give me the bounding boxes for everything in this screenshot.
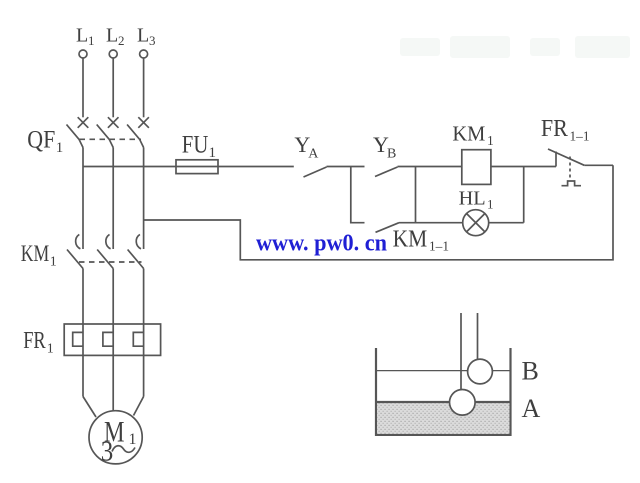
wire L3 to QF1 <box>143 58 145 117</box>
switch YA blade <box>304 167 327 177</box>
faint ghost watermark top right <box>400 36 630 58</box>
wire YB to coil KM1 <box>398 166 462 168</box>
FR1 heater element pole 1 <box>73 332 83 346</box>
breaker QF1 pole 2 contact cross <box>108 117 119 128</box>
contact FR1-1 thermal symbol <box>562 181 582 186</box>
terminal L3 <box>140 50 148 58</box>
svg-text:1: 1 <box>209 145 217 161</box>
wire L1 to QF1 <box>82 58 84 117</box>
label B <box>522 357 539 386</box>
svg-text:A: A <box>522 394 541 423</box>
FR1 heater element pole 2 <box>103 332 113 346</box>
breaker QF1 pole 1 blade <box>67 125 84 148</box>
switch YB blade <box>375 167 398 177</box>
lamp HL1 <box>463 210 489 236</box>
label KM1 (main contacts) <box>21 241 57 269</box>
motor M1 circle <box>89 411 142 464</box>
svg-text:1: 1 <box>487 133 494 148</box>
label YB <box>373 132 396 161</box>
coil KM1 <box>462 150 491 185</box>
svg-text:B: B <box>522 357 539 386</box>
tank water fill <box>377 403 509 434</box>
svg-text:KM: KM <box>393 226 428 252</box>
svg-text:1: 1 <box>129 431 137 448</box>
wire QF1 pole 3 down to KM1 contact <box>143 148 145 250</box>
label QF1 <box>27 126 63 156</box>
svg-text:L: L <box>106 25 118 47</box>
svg-text:FU: FU <box>182 132 209 159</box>
svg-text:L: L <box>137 25 149 47</box>
svg-text:1: 1 <box>487 196 494 211</box>
node L2 label <box>106 25 125 49</box>
svg-text:1: 1 <box>88 33 95 48</box>
contactor KM1 pole 2 arc <box>106 234 111 248</box>
contactor KM1 pole 3 blade <box>128 250 144 269</box>
node L1 label <box>76 25 95 49</box>
contact FR1-1 fixed tick <box>555 152 557 167</box>
motor tilde <box>112 446 135 453</box>
motor lead right diagonal <box>134 397 144 416</box>
wire L2 to QF1 <box>112 58 114 117</box>
wire YA to junction <box>327 166 365 168</box>
svg-text:QF: QF <box>27 126 55 153</box>
breaker QF1 pole 3 blade <box>127 125 144 148</box>
wire KM1 pole 1 to FR1 and motor <box>82 269 84 397</box>
svg-text:www. pw0. cn: www. pw0. cn <box>256 231 387 257</box>
label A <box>522 394 541 423</box>
label HL1 <box>459 187 494 211</box>
contactor KM1 pole 1 blade <box>67 250 83 269</box>
tank walls <box>376 348 511 435</box>
wire junction x524 down to lamp branch <box>523 167 525 223</box>
contact FR1-1 blade <box>548 149 584 165</box>
label KM1 (coil) <box>452 121 493 148</box>
svg-text:FR: FR <box>23 328 46 354</box>
svg-text:1: 1 <box>47 342 54 357</box>
tank water surface line A <box>377 401 510 403</box>
svg-text:FR: FR <box>541 116 568 142</box>
wire L3 tap to control return <box>144 165 613 259</box>
wire control bus from pole1 through FU1 to YA <box>83 166 294 168</box>
probe rod A <box>460 313 462 390</box>
label YA <box>294 132 319 161</box>
wire QF1 pole 2 down to KM1 contact <box>112 148 114 250</box>
svg-text:3: 3 <box>101 437 114 468</box>
wire KM1-1 to junction <box>399 222 416 224</box>
float A <box>450 390 476 416</box>
contactor KM1 pole 2 blade <box>97 250 113 269</box>
contactor KM1 pole 3 arc <box>136 234 141 248</box>
node L3 label <box>137 25 156 49</box>
svg-text:A: A <box>308 146 319 161</box>
svg-text:B: B <box>387 146 396 161</box>
contact KM1-1 blade <box>376 223 400 233</box>
svg-text:KM: KM <box>21 241 50 266</box>
svg-text:3: 3 <box>149 33 156 48</box>
terminal L2 <box>109 50 117 58</box>
svg-text:L: L <box>76 25 88 47</box>
contact FR1-1 actuator dashed link <box>569 157 571 179</box>
contactor KM1 linkage (dashed) <box>79 261 142 263</box>
breaker QF1 pole 3 contact cross <box>138 117 149 128</box>
tank level B line <box>377 370 510 372</box>
label KM1-1 <box>393 226 449 254</box>
float B <box>468 359 493 384</box>
wire junction drop to KM1-1 <box>351 167 365 223</box>
contactor KM1 pole 1 arc <box>76 234 81 248</box>
svg-text:1–1: 1–1 <box>570 130 590 145</box>
wire lamp to junction <box>489 222 524 224</box>
label FU1 <box>182 132 216 161</box>
svg-text:KM: KM <box>452 121 485 145</box>
label FR1 <box>23 328 54 356</box>
breaker QF1 linkage (dashed) <box>80 138 142 140</box>
wire FR1-1 to right drop <box>584 164 613 166</box>
FR1 heater element pole 3 <box>133 332 143 346</box>
wire lamp branch <box>416 222 463 224</box>
svg-text:HL: HL <box>459 187 486 209</box>
label M1 3~ inside motor <box>101 416 137 468</box>
svg-text:1: 1 <box>50 255 57 270</box>
svg-text:2: 2 <box>118 33 125 48</box>
watermark www.pw0.cn <box>256 231 387 257</box>
wire QF1 pole 1 down to KM1 contact <box>82 148 84 250</box>
wire KM1 pole 3 to FR1 and motor <box>143 269 145 397</box>
probe rod B <box>477 313 479 359</box>
motor lead left diagonal <box>83 397 96 418</box>
label FR1-1 <box>541 116 590 145</box>
thermal relay FR1 body <box>64 324 160 355</box>
fuse FU1 <box>176 160 218 174</box>
breaker QF1 pole 2 blade <box>97 125 114 148</box>
svg-text:1: 1 <box>56 140 64 156</box>
breaker QF1 pole 1 contact cross <box>78 117 89 128</box>
terminal L1 <box>79 50 87 58</box>
wire junction vertical to lamp branch <box>415 167 417 223</box>
svg-text:1–1: 1–1 <box>429 240 449 255</box>
wire coil to FR1-1 <box>491 166 556 168</box>
wire KM1 pole 2 to FR1 and motor <box>112 269 114 411</box>
